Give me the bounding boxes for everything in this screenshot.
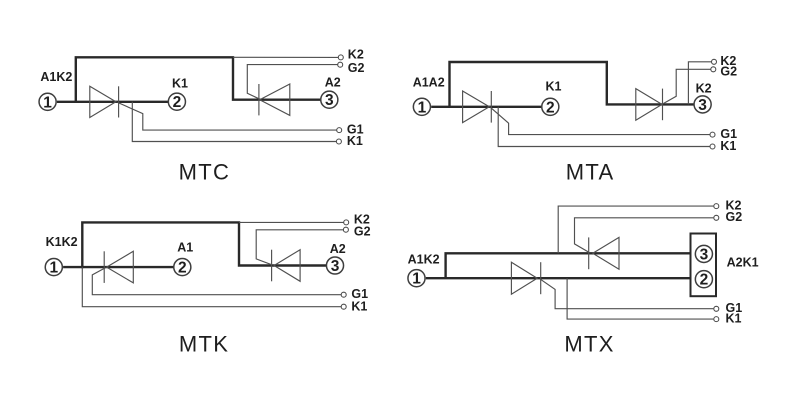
svg-text:K1: K1	[351, 299, 367, 313]
wire: main A1A2 to K1	[431, 106, 541, 108]
package outline box	[691, 234, 717, 297]
thyristor Q7 (lower, anode at node 1, cathode at terminal 2)	[511, 262, 537, 294]
svg-text:2: 2	[173, 94, 182, 111]
wire: top loop from node 1 over to thyristor Q2 cathode	[76, 57, 259, 103]
gate wire G1 from Q3	[491, 107, 711, 134]
terminal 2 (in box)	[695, 271, 712, 288]
pin K2	[714, 204, 719, 209]
cathode bar Q8	[588, 237, 590, 269]
wire: Q2 cathode bar to terminal 3	[259, 98, 321, 100]
svg-text:3: 3	[698, 97, 707, 114]
svg-text:A2: A2	[325, 76, 341, 90]
thyristor Q5 (anode at node 2, cathode at node 1)	[107, 251, 134, 283]
gate wire G2 from Q8	[575, 218, 714, 253]
terminal 2	[168, 93, 185, 110]
gate wire G2 from Q4	[663, 69, 711, 103]
cathode bar Q1	[118, 86, 120, 117]
wire: main K1K2 to A1	[63, 266, 174, 268]
svg-text:3: 3	[700, 246, 709, 263]
terminal 3	[326, 257, 343, 274]
terminal 1	[45, 259, 62, 276]
svg-text:MTC: MTC	[179, 160, 231, 185]
thyristor Q3 (anode at node 1, cathode toward node 2)	[463, 91, 490, 123]
svg-text:K1K2: K1K2	[46, 235, 78, 249]
auxiliary cathode wire K1 tap	[498, 107, 710, 147]
pin G1	[710, 132, 715, 137]
gate wire G2 from Q6	[256, 230, 343, 265]
cathode bar Q4	[662, 89, 664, 121]
terminal 2	[174, 259, 191, 276]
wire: main A1K2 to terminal 2	[426, 277, 696, 279]
pin K1	[710, 144, 715, 149]
svg-text:A1K2: A1K2	[40, 70, 72, 84]
gate wire G1 from Q7	[540, 279, 714, 309]
gate wire G2 from Q2	[247, 65, 338, 99]
auxiliary cathode wire K2 tap	[558, 206, 713, 253]
terminal 3	[694, 96, 711, 113]
svg-text:2: 2	[178, 260, 187, 277]
terminal 1	[408, 270, 425, 287]
svg-text:MTA: MTA	[566, 160, 615, 185]
svg-text:1: 1	[412, 271, 421, 288]
pin K1	[336, 139, 341, 144]
svg-text:1: 1	[43, 94, 52, 111]
terminal 1	[413, 98, 430, 115]
svg-text:G2: G2	[726, 210, 743, 224]
pin K1	[714, 317, 719, 322]
svg-text:K1: K1	[347, 134, 363, 148]
pin G1	[341, 292, 346, 297]
wire: top loop from node 1 to thyristor Q4 anode	[450, 62, 694, 108]
gate wire G1 from Q1	[118, 102, 337, 130]
auxiliary cathode wire K2	[239, 221, 344, 223]
svg-text:A2K1: A2K1	[727, 256, 759, 270]
svg-text:K1: K1	[172, 77, 188, 91]
svg-text:A1: A1	[177, 241, 193, 255]
auxiliary cathode wire K1 tap	[567, 278, 713, 319]
svg-text:3: 3	[331, 258, 340, 275]
pin G2	[714, 215, 719, 220]
terminal 3	[321, 91, 338, 108]
svg-text:A2: A2	[330, 242, 346, 256]
svg-text:G2: G2	[720, 65, 737, 79]
wire: riser and upper row to terminal 3	[446, 253, 696, 278]
auxiliary cathode wire K2	[233, 56, 339, 58]
svg-text:K1: K1	[726, 312, 742, 326]
thyristor Q1 (anode at node 1, cathode toward node 2)	[90, 86, 116, 117]
pin G2	[711, 67, 716, 72]
pin K1	[341, 304, 346, 309]
svg-text:K1: K1	[546, 79, 562, 93]
thyristor Q4 (anode on top loop, cathode at terminal 3)	[636, 89, 662, 121]
wire: main A1K2 to K1	[57, 101, 168, 103]
svg-text:G2: G2	[348, 61, 365, 75]
svg-text:K2: K2	[696, 82, 712, 96]
pin K2	[712, 59, 717, 64]
thyristor Q2 (anode at terminal 3, cathode to top loop)	[260, 84, 290, 115]
wire: top loop from node 1 to thyristor Q6 cathode	[82, 222, 326, 268]
auxiliary cathode wire K1 tap	[82, 267, 341, 307]
thyristor Q6 (anode at terminal 3, cathode to top loop)	[274, 250, 300, 282]
svg-text:MTK: MTK	[179, 332, 229, 357]
pin G1	[337, 128, 342, 133]
cathode bar Q5	[103, 251, 105, 283]
pin G1	[714, 306, 719, 311]
pin K2	[338, 55, 343, 60]
cathode bar Q7	[540, 262, 542, 294]
gate wire G1 from Q5	[92, 268, 341, 295]
pin G2	[338, 62, 343, 67]
terminal 1	[39, 93, 56, 110]
terminal 3 (in box)	[695, 245, 712, 262]
svg-text:1: 1	[49, 260, 58, 277]
pin K2	[344, 220, 349, 225]
thyristor Q8 (upper, anode at terminal 3, cathode to node 1)	[593, 237, 619, 269]
cathode bar Q3	[490, 91, 492, 123]
pin G2	[343, 227, 348, 232]
svg-text:3: 3	[325, 92, 334, 109]
svg-text:2: 2	[700, 272, 709, 289]
svg-text:1: 1	[418, 99, 427, 116]
svg-text:MTX: MTX	[564, 331, 614, 356]
svg-text:K1: K1	[720, 139, 736, 153]
svg-text:A1K2: A1K2	[408, 252, 440, 266]
svg-text:A1A2: A1A2	[413, 76, 445, 90]
auxiliary cathode wire K1 tap	[132, 102, 336, 142]
terminal 2	[542, 98, 559, 115]
cathode bar Q2	[258, 84, 260, 115]
svg-text:G2: G2	[354, 225, 371, 239]
cathode bar Q6	[271, 250, 273, 282]
svg-text:2: 2	[546, 99, 555, 116]
svg-text:K2: K2	[348, 48, 364, 62]
auxiliary cathode wire K2 tap	[688, 62, 711, 105]
